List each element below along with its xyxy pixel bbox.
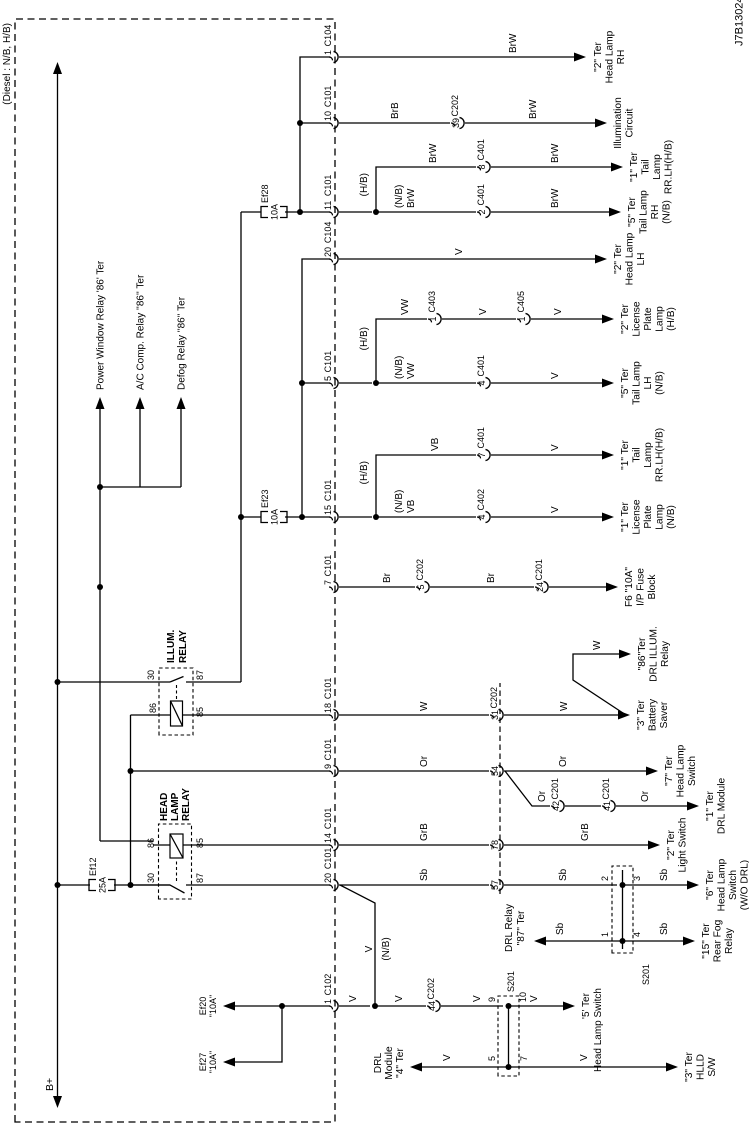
wire pin1 C104 to head lamp RH — [339, 56, 575, 58]
illum relay coil — [171, 701, 183, 726]
svg-text:C202: C202 — [426, 978, 436, 1000]
svg-text:A/C Comp. Relay ''86'' Ter: A/C Comp. Relay ''86'' Ter — [136, 274, 147, 390]
svg-text:"6" Ter: "6" Ter — [705, 870, 716, 900]
connector 7 C401 — [477, 455, 481, 458]
wire pin5 C101 down — [339, 382, 372, 384]
svg-text:W: W — [419, 701, 430, 711]
illum relay coil lead 85 — [183, 714, 331, 716]
svg-text:RELAY: RELAY — [181, 788, 192, 821]
svg-text:C101: C101 — [323, 480, 333, 502]
svg-text:41: 41 — [602, 801, 612, 811]
illum relay contact blade — [170, 677, 184, 683]
wire 5 C202 to 24 C201 — [430, 586, 534, 588]
svg-text:VB: VB — [430, 437, 441, 451]
wire 24 C201 to fuse block — [549, 586, 607, 588]
wire to A/C Comp Relay — [100, 486, 181, 488]
svg-text:"7" Ter: "7" Ter — [664, 756, 675, 786]
wire bus to illum relay 30 — [58, 681, 171, 683]
wire 78 to light switch — [504, 844, 649, 846]
svg-text:V: V — [550, 506, 561, 513]
svg-text:V: V — [550, 444, 561, 451]
svg-text:"3" Ter: "3" Ter — [636, 700, 647, 730]
arrow head lamp switch 7 — [646, 767, 658, 776]
wire S201 to DRL relay — [545, 940, 623, 942]
junction R5 — [373, 380, 379, 386]
svg-text:Ef28: Ef28 — [260, 184, 270, 203]
svg-text:"2" Ter: "2" Ter — [666, 830, 677, 860]
svg-text:10A: 10A — [270, 204, 280, 220]
svg-text:Lamp: Lamp — [655, 306, 666, 332]
svg-text:Br: Br — [382, 572, 393, 583]
svg-text:Head Lamp Switch: Head Lamp Switch — [593, 988, 604, 1072]
connector 54 C202 — [490, 771, 494, 774]
svg-text:C201: C201 — [601, 778, 611, 800]
distribution wire Ef28 — [300, 57, 330, 212]
svg-text:C402: C402 — [476, 489, 486, 511]
svg-text:I/P Fuse: I/P Fuse — [636, 568, 647, 606]
svg-text:Ef12: Ef12 — [88, 857, 98, 876]
svg-text:V: V — [529, 995, 540, 1002]
connector 2 C401 — [477, 212, 481, 215]
junction relay feed / pin7 drop — [97, 584, 103, 590]
svg-text:57: 57 — [490, 880, 500, 890]
connector 57 C202 — [490, 885, 494, 888]
svg-text:20: 20 — [323, 873, 333, 883]
svg-text:10A: 10A — [270, 509, 280, 525]
svg-text:85: 85 — [195, 707, 205, 717]
arrow tail lamp RH — [609, 208, 621, 217]
svg-text:24: 24 — [535, 582, 545, 592]
arrow head lamp switch 6 — [687, 881, 699, 890]
svg-text:Light Switch: Light Switch — [678, 818, 689, 873]
head lamp relay coil lead 86 — [153, 844, 170, 846]
svg-text:5: 5 — [487, 1056, 497, 1061]
svg-text:C101: C101 — [323, 86, 333, 108]
svg-text:"10A": "10A" — [208, 1051, 218, 1073]
connector pin 14 C101 — [329, 845, 333, 848]
wire branch to DRL illum relay — [573, 654, 626, 715]
junction to pin 10 C101 — [297, 120, 303, 126]
svg-text:Tail Lamp: Tail Lamp — [632, 361, 643, 405]
arrow HLLD SW — [666, 1063, 678, 1072]
svg-text:"2" Ter: "2" Ter — [593, 42, 604, 72]
connector pin 20 C101 — [329, 885, 333, 888]
connector 39 C202 — [451, 123, 455, 126]
svg-text:Illumination: Illumination — [613, 97, 624, 149]
head lamp relay coil — [170, 834, 183, 858]
junction at Ef23 — [238, 514, 244, 520]
svg-text:C201: C201 — [534, 559, 544, 581]
svg-text:(N/B): (N/B) — [666, 505, 677, 529]
svg-text:LH: LH — [643, 376, 654, 389]
splice wire S201 upper — [622, 870, 624, 949]
svg-text:25A: 25A — [98, 877, 108, 893]
svg-text:"2" Ter: "2" Ter — [613, 244, 624, 274]
svg-text:Head Lamp: Head Lamp — [605, 30, 616, 83]
wire S201 to head lamp switch WO DRL — [623, 884, 689, 886]
svg-text:Ef27: Ef27 — [198, 1053, 208, 1072]
wire Ef28 drop — [241, 211, 261, 213]
svg-text:HLLD: HLLD — [696, 1054, 707, 1080]
svg-text:4: 4 — [477, 380, 487, 385]
svg-text:15: 15 — [323, 505, 333, 515]
svg-text:"5" Ter: "5" Ter — [627, 197, 638, 227]
svg-text:DRL ILLUM.: DRL ILLUM. — [649, 626, 660, 682]
svg-text:GrB: GrB — [419, 823, 430, 841]
svg-text:Tail: Tail — [632, 447, 643, 462]
svg-text:30: 30 — [146, 670, 156, 680]
wire 31 C202 to battery saver — [504, 714, 619, 716]
svg-text:Sb: Sb — [419, 868, 430, 881]
svg-text:"87" Ter: "87" Ter — [516, 910, 527, 945]
svg-text:BrW: BrW — [528, 99, 539, 119]
svg-text:DRL Module: DRL Module — [717, 778, 728, 835]
svg-text:C104: C104 — [323, 25, 333, 47]
wire S201 to DRL module 4 — [420, 1066, 509, 1068]
svg-text:Head Lamp: Head Lamp — [717, 858, 728, 911]
svg-text:Sb: Sb — [558, 868, 569, 881]
wire Ef23 to junction — [285, 516, 330, 518]
svg-text:4: 4 — [477, 514, 487, 519]
junction Ef20/Ef27 — [279, 1003, 285, 1009]
svg-text:'5' Ter: '5' Ter — [581, 992, 592, 1019]
svg-text:V: V — [579, 1054, 590, 1061]
svg-text:(N/B): (N/B) — [394, 490, 405, 513]
wire down to pin 5 C101 — [302, 382, 330, 384]
svg-text:BrW: BrW — [428, 143, 439, 163]
head lamp relay coil lead 85 — [183, 844, 330, 846]
wire pin20 C101 to 57 — [339, 884, 489, 886]
svg-text:Sb: Sb — [659, 868, 670, 881]
svg-text:Lamp: Lamp — [643, 442, 654, 468]
svg-text:(W/O DRL): (W/O DRL) — [740, 860, 749, 910]
svg-text:87: 87 — [195, 670, 205, 680]
wire 57 to S201 — [504, 884, 617, 886]
connector 24 C201 — [535, 587, 539, 590]
svg-text:V: V — [364, 945, 375, 952]
wire 41 C201 to DRL module — [616, 805, 688, 807]
svg-text:C405: C405 — [516, 291, 526, 313]
junction Ef28 output — [297, 209, 303, 215]
svg-text:S201: S201 — [641, 964, 651, 985]
svg-text:V: V — [472, 995, 483, 1002]
distribution wire Ef23 — [302, 259, 330, 517]
svg-text:Plate: Plate — [643, 307, 654, 331]
arrow light switch 2 — [648, 841, 660, 850]
B+ right arrow — [53, 62, 62, 74]
svg-text:14: 14 — [323, 833, 333, 843]
connector C202 dashed line — [499, 683, 501, 894]
svg-text:VW: VW — [406, 362, 417, 379]
connector pin 1 C104 — [329, 57, 333, 60]
wire R3 straight to 2 C401 — [376, 211, 476, 213]
svg-text:V: V — [394, 995, 405, 1002]
connector pin 18 C101 — [329, 715, 333, 718]
svg-text:39: 39 — [451, 118, 461, 128]
connector pin 20 C104 — [329, 259, 333, 262]
svg-text:54: 54 — [490, 766, 500, 776]
svg-text:"3" Ter: "3" Ter — [684, 1052, 695, 1082]
wire Ef20/Ef27 to pin 1 C102 — [282, 1005, 330, 1007]
wire 44 C202 to S201 — [441, 1005, 503, 1007]
svg-text:Sb: Sb — [555, 922, 566, 935]
svg-text:RH: RH — [650, 205, 661, 220]
wire 39 C202 to illumination — [465, 122, 596, 124]
head lamp relay contact output — [186, 884, 330, 886]
svg-text:"1" Ter: "1" Ter — [629, 152, 640, 182]
svg-text:(H/B): (H/B) — [359, 327, 370, 350]
wire S201 to HLLD — [509, 1066, 668, 1068]
junction Ef23 output — [299, 514, 305, 520]
junction V N/B — [372, 1003, 378, 1009]
svg-text:(N/B): (N/B) — [655, 371, 666, 395]
splice box S201 upper — [612, 866, 633, 953]
svg-text:Circuit: Circuit — [625, 108, 636, 137]
svg-text:RR.LH(H/B): RR.LH(H/B) — [655, 428, 666, 482]
svg-text:C201: C201 — [550, 778, 560, 800]
svg-text:31: 31 — [490, 710, 500, 720]
svg-text:C101: C101 — [323, 175, 333, 197]
svg-text:78: 78 — [490, 840, 500, 850]
wire junction to 44 C202 — [375, 1005, 426, 1007]
wire 4 C401 to tail lamp LH — [491, 382, 603, 384]
svg-text:C202: C202 — [450, 95, 460, 117]
arrow DRL module 4 — [410, 1063, 422, 1072]
svg-text:(H/B): (H/B) — [666, 307, 677, 331]
svg-text:C101: C101 — [323, 351, 333, 373]
svg-text:(N/B): (N/B) — [394, 356, 405, 379]
svg-text:S201: S201 — [506, 971, 516, 992]
wire pin20 C104 to head lamp LH — [339, 258, 596, 260]
svg-text:ILLUM.: ILLUM. — [166, 629, 177, 663]
relay box ILLUM. RELAY — [159, 668, 193, 735]
svg-text:V: V — [454, 248, 465, 255]
wire 1 C403 to C405 — [442, 318, 516, 320]
splice box S201 lower — [498, 996, 519, 1076]
svg-text:S/W: S/W — [707, 1057, 718, 1077]
svg-text:J7B13024: J7B13024 — [734, 0, 746, 46]
svg-text:8: 8 — [477, 164, 487, 169]
B+ bus wire — [57, 65, 59, 1103]
wire to Ef23 — [241, 516, 261, 518]
arrow rear fog relay — [683, 937, 695, 946]
wire pin10 C101 to 39 C202 — [339, 122, 450, 124]
svg-text:4: 4 — [632, 932, 642, 937]
svg-text:Head Lamp: Head Lamp — [625, 232, 636, 285]
connector 44 C202 — [427, 1006, 431, 1009]
svg-text:HEAD: HEAD — [159, 793, 170, 821]
wire cross-feed down to illum coil — [131, 714, 171, 716]
wire down to pin 10 C101 — [300, 122, 330, 124]
svg-text:Lamp: Lamp — [652, 154, 663, 180]
svg-text:30: 30 — [146, 873, 156, 883]
svg-text:License: License — [632, 499, 643, 534]
svg-text:LH: LH — [636, 252, 647, 265]
svg-text:(N/B): (N/B) — [381, 937, 392, 960]
svg-text:42: 42 — [551, 801, 561, 811]
arrow DRL illum relay — [619, 650, 631, 659]
connector 5 C202 — [416, 587, 420, 590]
fuse Ef28 10A — [261, 207, 268, 218]
junction S201 2/3 — [620, 882, 626, 888]
junction Ef12 output — [128, 882, 134, 888]
arrow tail lamp RR.LH — [611, 163, 623, 172]
svg-text:BrW: BrW — [508, 33, 519, 53]
svg-text:Relay: Relay — [660, 640, 671, 667]
arrow license plate H/B — [602, 315, 614, 324]
arrow to Defog Relay — [177, 397, 186, 409]
connector 4 C402 — [477, 517, 481, 520]
wire branch to Ef27 — [228, 1006, 282, 1062]
svg-text:Battery: Battery — [648, 698, 659, 731]
arrow head lamp RH — [574, 53, 586, 62]
junction S201 9/10 — [506, 1003, 512, 1009]
relay box HEAD LAMP RELAY — [159, 824, 192, 899]
svg-text:W: W — [559, 701, 570, 711]
diagonal wire from pin20 C101 — [340, 885, 375, 1006]
fuse Ef23 10A — [261, 512, 268, 523]
svg-text:C101: C101 — [323, 678, 333, 700]
wire relay feed down to head lamp relay coil — [100, 840, 153, 842]
wire pin11 C101 down — [339, 211, 372, 213]
connector pin 11 C101 — [329, 212, 333, 215]
svg-text:C401: C401 — [476, 184, 486, 206]
connector 1 C403 — [428, 319, 432, 322]
svg-text:7: 7 — [323, 580, 333, 585]
svg-text:"1" Ter: "1" Ter — [620, 440, 631, 470]
svg-text:Relay: Relay — [724, 927, 735, 954]
arrow head lamp LH — [595, 255, 607, 264]
svg-text:44: 44 — [427, 1001, 437, 1011]
svg-text:9: 9 — [487, 997, 497, 1002]
connector pin 15 C101 — [329, 517, 333, 520]
wire R5 straight to 4 C401 — [376, 382, 476, 384]
svg-text:18: 18 — [323, 703, 333, 713]
wire R5 branch — [376, 319, 427, 383]
svg-text:"86"Ter: "86"Ter — [637, 637, 648, 670]
svg-text:C202: C202 — [415, 559, 425, 581]
wire pin1 C102 down — [339, 1005, 370, 1007]
svg-text:Power Window Relay '86' Ter: Power Window Relay '86' Ter — [96, 260, 107, 390]
connector pin 1 C102 — [329, 1006, 333, 1009]
svg-text:3: 3 — [632, 876, 642, 881]
svg-text:5: 5 — [323, 376, 333, 381]
svg-text:Block: Block — [647, 574, 658, 600]
svg-text:"15" Ter: "15" Ter — [701, 923, 712, 959]
svg-text:10: 10 — [518, 992, 528, 1002]
svg-text:5: 5 — [416, 584, 426, 589]
svg-text:1: 1 — [517, 316, 527, 321]
illum relay coil diagonal — [171, 701, 183, 726]
svg-text:V: V — [478, 308, 489, 315]
svg-text:B+: B+ — [44, 1078, 56, 1091]
svg-text:87: 87 — [195, 873, 205, 883]
wire R3 branch — [376, 167, 476, 212]
svg-text:7: 7 — [477, 452, 487, 457]
wire 2 C401 to tail lamp RH — [491, 211, 610, 213]
relay feed wire to other relays — [99, 400, 101, 841]
wire Defog branch — [180, 408, 182, 487]
B+ left arrow — [53, 1096, 62, 1108]
svg-text:Tail Lamp: Tail Lamp — [639, 190, 650, 234]
connector pin 5 C101 — [329, 383, 333, 386]
svg-text:DRL: DRL — [373, 1052, 384, 1073]
svg-text:1: 1 — [600, 932, 610, 937]
svg-text:85: 85 — [195, 838, 205, 848]
connector pin 10 C101 — [329, 123, 333, 126]
arrow battery saver — [618, 711, 630, 720]
arrow to A/C Comp Relay — [136, 397, 145, 409]
wire pin18 C101 to 31 C202 — [339, 714, 489, 716]
arrow head lamp switch 5 — [563, 1002, 575, 1011]
svg-text:VW: VW — [400, 298, 411, 315]
svg-text:BrW: BrW — [550, 143, 561, 163]
svg-text:C401: C401 — [476, 139, 486, 161]
svg-text:F6 "10A": F6 "10A" — [624, 567, 635, 607]
svg-text:Defog Relay ''86'' Ter: Defog Relay ''86'' Ter — [177, 296, 188, 390]
svg-text:RR.LH(H/B): RR.LH(H/B) — [664, 140, 675, 194]
svg-text:Module: Module — [384, 1046, 395, 1080]
svg-text:C102: C102 — [323, 974, 333, 996]
arrow tail RR.LH HB — [602, 451, 614, 460]
svg-text:Sb: Sb — [659, 922, 670, 935]
svg-text:20: 20 — [323, 247, 333, 257]
wire bus to Ef12 top — [58, 884, 91, 886]
wire bus to Ef12 — [58, 884, 62, 886]
svg-text:Rear Fog: Rear Fog — [713, 919, 724, 962]
svg-text:Br: Br — [486, 572, 497, 583]
svg-text:Saver: Saver — [659, 701, 670, 728]
svg-text:C403: C403 — [427, 291, 437, 313]
wire S201 to rear fog relay — [623, 940, 685, 942]
svg-text:VB: VB — [406, 499, 417, 513]
svg-text:(N/B): (N/B) — [394, 185, 405, 208]
svg-text:Ef20: Ef20 — [198, 997, 208, 1016]
svg-text:(H/B): (H/B) — [359, 461, 370, 484]
connector 42 C201 — [551, 806, 555, 809]
connector pin 7 C101 — [329, 587, 333, 590]
wire junction to pin 9 C101 — [131, 770, 331, 772]
junction S201 1/4 — [620, 938, 626, 944]
connector 4 C401 — [477, 383, 481, 386]
svg-text:C401: C401 — [476, 355, 486, 377]
svg-text:License: License — [632, 301, 643, 336]
junction cross-feed to pin 9 — [128, 768, 134, 774]
svg-text:V: V — [348, 995, 359, 1002]
fuse Ef12 25A — [89, 880, 96, 891]
splice wire S201 lower — [508, 1006, 510, 1067]
svg-text:W: W — [592, 640, 603, 650]
svg-text:Lamp: Lamp — [655, 504, 666, 530]
svg-text:C101: C101 — [323, 739, 333, 761]
junction on bus at Ef12 — [55, 882, 61, 888]
svg-text:1: 1 — [323, 50, 333, 55]
svg-text:11: 11 — [323, 201, 333, 210]
connector 8 C401 — [477, 167, 481, 170]
svg-text:(N/B): (N/B) — [662, 200, 673, 224]
svg-text:2: 2 — [600, 876, 610, 881]
wire illum 87 to fuses — [240, 212, 242, 682]
svg-text:(Diesel : N/B, H/B): (Diesel : N/B, H/B) — [2, 23, 13, 105]
svg-text:C101: C101 — [323, 808, 333, 830]
wire pin14 C101 to 78 — [339, 844, 489, 846]
connector 1 C405 — [517, 319, 521, 322]
arrow tail lamp LH — [602, 379, 614, 388]
svg-text:86: 86 — [146, 838, 156, 848]
svg-text:86: 86 — [148, 703, 158, 713]
svg-text:"10A": "10A" — [208, 995, 218, 1017]
illum relay link — [176, 684, 178, 699]
